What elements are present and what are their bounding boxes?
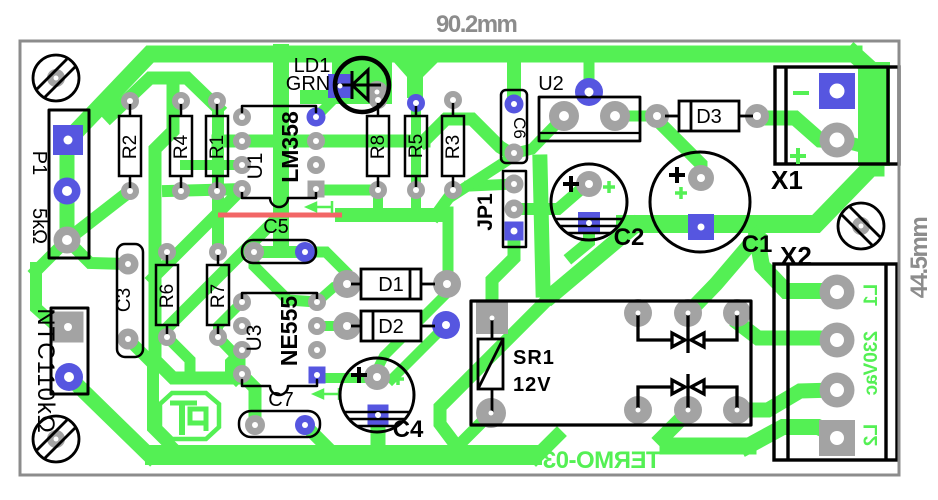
- pad R8 top: [369, 91, 387, 109]
- pad X1 +: [820, 123, 855, 158]
- pad X2-4 (square): [819, 420, 855, 456]
- wire C7 blue to band: [305, 425, 328, 448]
- wire band to relay mid contact: [688, 236, 757, 313]
- pad SR1 contact top 688: [674, 299, 702, 327]
- wire top band: [67, 54, 854, 141]
- pad D3 cathode: [745, 104, 769, 128]
- wire C6 area vertical: [540, 162, 543, 290]
- resistor R1: [206, 101, 228, 191]
- pad C3 bottom: [118, 329, 139, 350]
- timer U3 outline: [242, 293, 317, 299]
- wire rail to NTC: [36, 268, 66, 326]
- svg-text:P1: P1: [28, 151, 50, 175]
- wire band end stub: [536, 436, 557, 457]
- svg-text:R2: R2: [120, 135, 141, 159]
- pad U2-3 (other-layer): [575, 78, 603, 106]
- wire U2 to D3: [615, 111, 657, 122]
- U1 pin1 marker (green arrow): [307, 201, 332, 213]
- pad C2 +: [576, 171, 602, 197]
- pad P1-1 (square): [53, 125, 83, 155]
- pad D1 right: [433, 270, 461, 298]
- pad D3 anode: [645, 104, 669, 128]
- connector NTC outline: [51, 308, 88, 394]
- svg-text:R3: R3: [443, 135, 464, 159]
- pad mount MR: [852, 217, 870, 235]
- pad X1 - (square): [819, 73, 855, 109]
- wire band diag to coil: [552, 226, 634, 295]
- wire D3 pad to C1: [657, 120, 701, 178]
- pad X2-3: [820, 373, 855, 408]
- wire U1 pin8 to LED: [316, 99, 334, 117]
- relay contact symbol: [638, 374, 737, 410]
- pad C1 - (square): [688, 214, 714, 240]
- svg-text:R7: R7: [208, 284, 229, 308]
- wire C5 to U3: [254, 252, 317, 302]
- pad NTC-1 (square): [53, 312, 84, 343]
- pad U1 pin5 (square): [308, 181, 325, 198]
- svg-text:X1: X1: [771, 165, 803, 195]
- svg-text:L1: L1: [861, 284, 882, 307]
- pad X2-1: [820, 275, 855, 310]
- wire JP1 to C2: [514, 184, 589, 209]
- U3 pin1 marker (green arrow): [314, 388, 339, 400]
- wire U1 pin5 to R8: [322, 185, 378, 196]
- resistor R8: [367, 100, 389, 190]
- wire U3 to D2: [317, 321, 347, 331]
- pad SR1 contact bottom 638: [624, 396, 652, 424]
- potentiometer P1 outline: [49, 110, 89, 258]
- pad U3 pin4 left: [233, 365, 251, 383]
- mounting hole BL: [33, 416, 79, 462]
- wire D3 to X1: [757, 118, 837, 141]
- wire behind coil to bottom: [440, 295, 552, 440]
- wire band to U2: [584, 60, 595, 92]
- wire relay to X2 pad2: [737, 313, 837, 339]
- svg-text:R8: R8: [368, 135, 389, 159]
- X1 plus mark: [790, 148, 806, 164]
- pad mount TL: [47, 69, 65, 87]
- wire band B: [110, 78, 218, 116]
- pad SR1 contact top 638: [624, 299, 652, 327]
- wire row2 jog to C6: [424, 119, 510, 153]
- wire JP1 to relay coil: [492, 232, 514, 316]
- resistor R3: [442, 100, 464, 190]
- wire C5 internal: [254, 246, 305, 258]
- diode D3: [665, 101, 753, 131]
- copper pour X1 area: [858, 62, 890, 166]
- pad R2 top: [121, 92, 139, 110]
- pad U1 pin4 left: [233, 180, 251, 198]
- pad R3 top: [444, 91, 462, 109]
- pad mount BL: [47, 430, 65, 448]
- wire band B mesh to C7: [155, 84, 255, 425]
- pad U3 pin6: [308, 341, 326, 359]
- wire to R3 pad: [436, 190, 452, 215]
- LED LD1: [335, 58, 389, 112]
- pad D2 left: [333, 312, 361, 340]
- pad U3 pin2 left: [233, 317, 251, 335]
- pad JP1-3 (square): [505, 222, 524, 241]
- resistor R5: [405, 103, 427, 190]
- capacitor C3: [117, 244, 143, 357]
- pad U1 pin6: [307, 156, 325, 174]
- op-amp U1 outline: [242, 106, 316, 112]
- copper pour below GRN label: [300, 90, 334, 104]
- pad C4 - (square): [368, 405, 389, 426]
- pad R3 bottom: [444, 181, 462, 199]
- wire U3 to D1: [317, 284, 347, 302]
- copper pour LED area: [332, 46, 392, 104]
- wire X1 to C1 band: [625, 162, 876, 224]
- pad R7 top: [209, 243, 227, 261]
- wire D2 to C4: [392, 325, 446, 379]
- pad R4 top: [172, 92, 190, 110]
- mounting hole TL: [33, 55, 79, 101]
- pad R8 bottom: [369, 181, 387, 199]
- wire relay to X2 pad3: [737, 390, 837, 410]
- wire R7 bottom: [218, 337, 240, 377]
- wire U2 to C6 pad: [516, 116, 564, 153]
- capacitor C6: [501, 90, 527, 163]
- pad U2-1: [549, 101, 579, 131]
- pad SR1 contact bottom 688: [674, 396, 702, 424]
- pad C2 - (square): [578, 212, 600, 234]
- wire U1 row3 stub: [185, 160, 242, 170]
- svg-text:90.2mm: 90.2mm: [436, 11, 517, 38]
- pad U1 pin1 left: [233, 108, 251, 126]
- resistor R7: [207, 252, 229, 337]
- pad R1 top: [208, 92, 226, 110]
- X2 labels (mirrored): [861, 284, 882, 446]
- pad U3 pin3 left: [233, 341, 251, 359]
- pad SR1 coil B: [476, 398, 506, 428]
- jumper wire (red, top-side link): [218, 213, 342, 218]
- svg-text:R1: R1: [207, 135, 228, 159]
- svg-text:44.5mm: 44.5mm: [906, 218, 933, 299]
- pad R7 bottom: [209, 328, 227, 346]
- wire diag branch to JP1-1: [470, 184, 514, 186]
- pad C7 right (other-layer): [295, 415, 315, 435]
- svg-text:D2: D2: [378, 316, 404, 338]
- wire X2 pad1: [757, 238, 837, 291]
- pad R6 bottom: [158, 328, 176, 346]
- svg-text:C3: C3: [114, 288, 135, 312]
- wire into X1 pad: [837, 141, 876, 150]
- wire mid band: [342, 208, 436, 222]
- resistor R4: [170, 101, 192, 191]
- svg-text:U2: U2: [538, 73, 564, 95]
- svg-text:NTC110kΩ: NTC110kΩ: [32, 308, 59, 434]
- svg-text:230Vac: 230Vac: [861, 331, 882, 396]
- relay SR1 outline: [471, 301, 751, 425]
- pad SR1 contact bottom 737: [723, 396, 751, 424]
- svg-text:5kΩ: 5kΩ: [28, 208, 50, 244]
- wire C4 to band: [371, 415, 386, 450]
- pad JP1-1: [505, 175, 524, 194]
- wire U3 pin stub: [230, 350, 242, 377]
- svg-text:C4: C4: [393, 416, 424, 443]
- wire P1 to R2: [67, 191, 130, 240]
- wire diag to R6 bottom: [167, 219, 276, 337]
- wire R8 stub: [373, 190, 383, 208]
- wire coil pad to band: [455, 413, 491, 448]
- pad R4 bottom: [172, 182, 190, 200]
- svg-text:NE555: NE555: [276, 296, 302, 367]
- pad NTC-2 (other-layer): [55, 363, 83, 391]
- connector X2 outline: [774, 264, 897, 460]
- diode D2: [347, 311, 435, 341]
- wire C2 blue join: [572, 230, 589, 256]
- wire D1 to C4: [378, 284, 448, 368]
- svg-text:X2: X2: [780, 241, 812, 271]
- svg-text:C5: C5: [263, 216, 289, 238]
- pad U3 pin1 left: [233, 293, 251, 311]
- pad U3 pin8: [308, 293, 326, 311]
- wire P1 to C3: [67, 240, 126, 264]
- pad C3 top: [118, 254, 139, 275]
- pad C6 bottom: [505, 144, 524, 163]
- wire C3 to bottom: [128, 339, 180, 455]
- wire C5 blue to D1: [305, 252, 347, 284]
- wire to C6 pad: [452, 156, 514, 196]
- capacitor C4: [340, 358, 414, 432]
- wire relay mid down: [662, 412, 688, 438]
- svg-text:LM358: LM358: [277, 111, 303, 183]
- svg-text:D3: D3: [696, 106, 722, 128]
- pad P1-3: [54, 227, 81, 254]
- wire to D1 right pad: [443, 212, 454, 284]
- svg-text:GRN: GRN: [286, 73, 330, 95]
- wire U1 pin diag: [153, 189, 242, 278]
- pad R1 bottom: [208, 182, 226, 200]
- svg-text:C6: C6: [510, 117, 529, 139]
- pad SR1 contact top 737: [723, 299, 751, 327]
- svg-text:R4: R4: [171, 134, 192, 159]
- pad R2 bottom: [121, 182, 139, 200]
- wire rail R4-U1: [168, 189, 242, 191]
- wire U3 pin to R7: [218, 302, 242, 337]
- pad C5 left: [244, 242, 264, 262]
- pad U3 pin5 (square): [309, 367, 326, 384]
- resistor R2: [119, 101, 141, 191]
- pad U1 pin7: [307, 132, 325, 150]
- X1 minus mark: [793, 91, 809, 95]
- svg-text:12V: 12V: [513, 374, 552, 396]
- PT logo: [160, 393, 219, 439]
- rectifier U2 outline: [539, 97, 640, 141]
- pad LD1 cathode: [366, 81, 388, 103]
- wire band to C6: [507, 60, 521, 96]
- svg-text:TERMO-03: TERMO-03: [543, 447, 661, 474]
- pad X2-2: [820, 323, 855, 358]
- svg-text:C1: C1: [742, 231, 773, 258]
- wire vertical through U1: [273, 52, 289, 248]
- svg-text:R6: R6: [157, 284, 178, 308]
- wire stub R6 top: [155, 247, 167, 257]
- pad SR1 coil A (square): [476, 302, 508, 334]
- connector X1 outline: [775, 67, 899, 164]
- pad C4 +: [364, 364, 390, 390]
- wire R5 through: [411, 103, 421, 206]
- wire U3 to C4: [327, 373, 362, 383]
- pad R5 top (other-layer): [407, 94, 425, 112]
- pad JP1-2: [505, 200, 524, 219]
- svg-text:SR1: SR1: [513, 347, 555, 369]
- wire R1 vertical rail: [212, 104, 224, 252]
- diode D1: [347, 269, 435, 299]
- relay coil symbol: [478, 318, 503, 413]
- svg-text:U1: U1: [244, 153, 267, 180]
- svg-text:C2: C2: [614, 224, 645, 251]
- pad U2-2: [600, 101, 630, 131]
- pad U1 pin8 (other-layer): [307, 108, 326, 127]
- svg-text:JP1: JP1: [474, 193, 497, 231]
- pad R5 bottom: [407, 181, 425, 199]
- pad U3 pin7: [308, 317, 326, 335]
- pad C5 right (other-layer): [295, 242, 315, 262]
- wire NTC to bottom band: [69, 377, 150, 456]
- pad D2 right (other-layer): [432, 311, 460, 339]
- capacitor C7: [239, 411, 320, 437]
- wire U3 pin stub2: [236, 374, 242, 380]
- pad R6 top: [158, 243, 176, 261]
- svg-text:R5: R5: [406, 134, 427, 158]
- pad U1 pin3 left: [233, 156, 251, 174]
- capacitor C2: [551, 164, 627, 240]
- pad U1 pin2 left: [233, 132, 251, 150]
- svg-text:U3: U3: [243, 325, 266, 352]
- pad C7 left: [245, 415, 265, 435]
- wire P1 vertical: [60, 134, 75, 240]
- drill holes: [54, 76, 864, 446]
- wire to X2 sq pad: [748, 427, 838, 446]
- resistor R6: [156, 252, 178, 337]
- svg-text:L2: L2: [861, 424, 882, 446]
- wire U1 row2: [218, 135, 424, 148]
- mounting hole MR: [838, 203, 884, 249]
- pad C6 top (other-layer): [505, 95, 524, 114]
- wire R6 bottom down: [167, 337, 190, 377]
- wire bottom right run: [668, 438, 748, 455]
- pad LD1 anode (square): [328, 74, 352, 98]
- pad D1 left: [333, 270, 361, 298]
- pad C1 +: [688, 165, 714, 191]
- relay contact symbol: [638, 313, 737, 353]
- wire right bend: [854, 54, 876, 168]
- capacitor C5: [242, 240, 316, 263]
- svg-text:D1: D1: [378, 274, 404, 296]
- copper funnel to R5 pad: [392, 60, 440, 98]
- wire bottom band: [155, 445, 532, 465]
- svg-text:C7: C7: [268, 389, 294, 411]
- pad P1-2 (other-layer): [54, 178, 81, 205]
- wire P1 to rail: [36, 240, 67, 271]
- jumper JP1 outline: [503, 171, 526, 247]
- capacitor C1: [650, 152, 750, 252]
